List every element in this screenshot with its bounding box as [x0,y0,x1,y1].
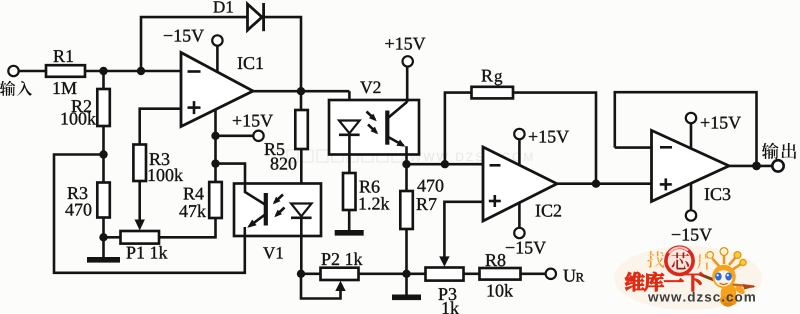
resistor R2 [97,89,110,126]
+15V terminal IC2 [514,129,524,139]
resistor R3 470 [97,183,110,218]
node junction V1 collector tap [211,159,219,167]
+15V terminal IC3 [686,113,696,123]
-15V terminal IC1 [212,35,222,45]
wire V1 LED cathode down to rail [300,218,303,274]
watermark logo [614,246,762,310]
potentiometer P3 [426,268,464,281]
terminal UR [546,269,556,279]
wire [521,272,546,275]
wire to V1 collector [216,164,246,184]
op-amp IC3 [652,130,730,201]
wire P1 right to R4 [159,218,216,237]
node junction R1-R2 [99,67,107,75]
resistor R5 [300,91,303,110]
wire emitter row to IC2 - [407,163,484,166]
wire IC2 + input to P3 wiper [444,202,483,259]
wire Rg left [445,93,472,165]
wire [216,135,254,138]
resistor R6 [343,173,356,210]
ground [348,210,351,230]
resistor Rg [472,87,514,99]
node junction feedback/out [752,162,761,171]
wire [359,272,426,275]
V2 phototransistor [385,111,389,145]
resistor R1 [46,65,85,77]
node junction +15V tap [211,132,219,140]
node junction R7 top [402,160,410,168]
potentiometer P2 [321,268,359,280]
wire IC3 output [729,165,773,168]
resistor R8 [480,268,521,280]
node junction R2/R3/loop [99,150,107,158]
output terminal [772,160,783,171]
wire [264,17,301,91]
wire IC1 supply rail [214,111,217,183]
wire IC2 output [557,182,652,185]
input terminal [8,66,18,76]
wire [216,46,219,73]
wire [102,71,105,89]
wire R5 to V1 LED [300,149,303,204]
wire feedback loop to V1 emitter [54,155,245,273]
wire IC1 + input [140,109,181,145]
V1 light arrows [275,195,284,203]
wire R7 to rail [405,229,408,274]
resistor R3 100k [133,145,146,182]
+15V terminal V2 [403,56,413,66]
ground [405,274,408,295]
node junction feedback tap [137,67,145,75]
resistor R7 [405,164,408,191]
wire [102,218,105,238]
wire V2 emitter [405,146,408,164]
node junction Rg/IC3 [592,180,600,188]
wire into V2 LED [348,91,351,120]
-15V terminal IC3 [686,210,696,220]
op-amp IC1 [181,53,253,127]
node junction output/R5/D1 [297,87,305,95]
V1 LED [291,204,312,217]
wire IC1 output [253,90,349,93]
optocoupler V1 [234,184,321,237]
P2 wiper loop [335,281,345,291]
+15V terminal IC1 [253,131,263,141]
label 输出 [762,143,779,160]
wire [102,155,105,183]
V2 LED [339,121,360,134]
wire V2 LED cathode [348,135,351,173]
wire [85,70,181,73]
node junction Rg tap [441,160,449,168]
potentiometer P1 [121,231,160,244]
diode D1 [248,4,263,30]
op-amp IC2 [483,147,557,221]
-15V terminal IC2 [514,228,524,238]
wire IC3 feedback loop [615,92,757,166]
wire [406,67,409,102]
V2 light arrows [367,112,376,120]
wire IC3 - input [615,146,652,149]
wire feedback top [141,17,248,71]
ground [102,237,105,257]
node junction ground/rail [402,270,410,278]
node junction R3-P1 [99,233,107,241]
V1 phototransistor [245,184,265,205]
wire [104,236,121,239]
optocoupler V2 [329,100,419,155]
wire Rg right to IC2 out [513,93,596,184]
node junction V1 cathode / P2 [297,270,305,278]
wire [301,272,321,275]
wire [464,272,480,275]
resistor R4 [209,182,222,218]
wire [102,126,105,155]
wire [19,70,46,73]
label 输入 [0,81,15,96]
wire wiper stem to P1 [138,181,141,222]
